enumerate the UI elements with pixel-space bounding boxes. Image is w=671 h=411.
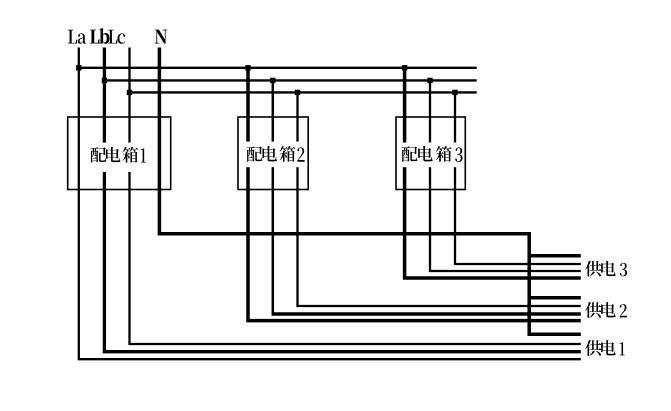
label N (neutral) — [155, 30, 167, 44]
wire box3 phase c: tap from bus Lc, feeder to 供电3 — [455, 92, 581, 264]
wire box2 phase a: tap from bus La, feeder to 供电2 — [248, 68, 581, 321]
junction dot Lb-bus — [102, 78, 107, 83]
text mask band box3 — [400, 143, 463, 168]
label Lb (phase B) — [90, 28, 110, 44]
junction dot box2-busLa — [245, 65, 250, 70]
junction dot box3-busLc — [452, 90, 457, 95]
wire N branch to 供电3 — [528, 254, 581, 258]
wire box3 phase a: tap from bus La, feeder to 供电3 — [405, 68, 581, 278]
text mask band box2 — [243, 142, 307, 168]
distribution box U3 配电箱3 — [396, 117, 465, 190]
junction dot box2-busLb — [270, 78, 275, 83]
wire Lc: vertical drop through box1, feeder to 供电1 — [130, 48, 581, 345]
junction dot box2-busLc — [295, 90, 300, 95]
junction dot box3-busLa — [402, 65, 407, 70]
label 供电1 (output feeder 1) — [585, 340, 624, 356]
bus La horizontal — [79, 67, 477, 69]
bus Lb horizontal — [104, 79, 476, 81]
bus Lc horizontal — [130, 91, 477, 93]
wire box2 phase b feeder to 供电2 — [272, 312, 581, 315]
junction dot Lc-bus — [127, 90, 132, 95]
junction dot box3-busLb — [427, 78, 432, 83]
junction dot La-bus — [76, 65, 81, 70]
distribution box U2 配电箱2 — [238, 117, 308, 190]
label Lc (phase C) — [108, 30, 125, 44]
label La (phase A) — [68, 30, 86, 44]
wire La: vertical drop through box1, feeder to 供电1 — [79, 48, 581, 360]
label 供电3 (output feeder 3) — [585, 261, 627, 277]
wire box3 phase b: tap from bus Lb, feeder to 供电3 — [430, 80, 581, 271]
wire Lb: vertical drop through box1, feeder to 供电1 — [104, 48, 580, 352]
text mask band box1 — [89, 143, 148, 172]
wire box2 phase b vertical tap from bus Lb — [272, 80, 275, 314]
wire N branch to 供电2 — [528, 296, 581, 300]
distribution box U1 配电箱1 — [68, 117, 171, 190]
wire N trunk: down, right, down at x=529.6, bottom feeder to 供电1 — [159, 48, 580, 335]
wire box2 phase c: tap from bus Lc, feeder to 供电2 — [298, 92, 581, 306]
label 供电2 (output feeder 2) — [585, 302, 627, 318]
